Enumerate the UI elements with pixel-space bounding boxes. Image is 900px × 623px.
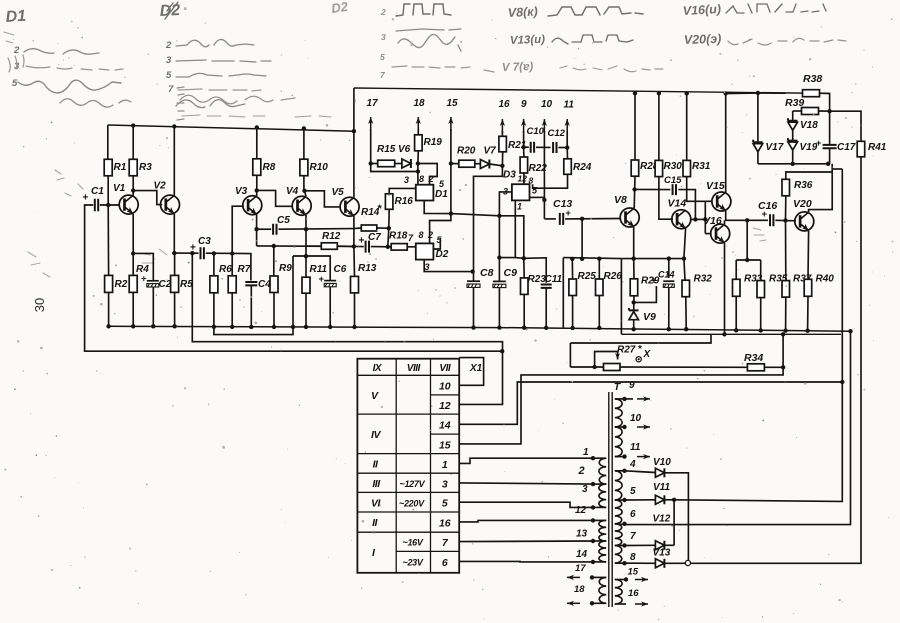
resistor R23 (523, 258, 525, 278)
svg-text:V12: V12 (653, 514, 671, 525)
wire V5 emitter (353, 216, 355, 247)
emitter bus V8 V14 (621, 258, 684, 260)
node C1-R1 (106, 203, 110, 207)
ic block D3 (512, 184, 530, 200)
svg-text:D2: D2 (330, 0, 349, 16)
wire D3 bottom pin to bus (499, 200, 515, 257)
wire V7 node down to C8 (474, 166, 503, 281)
svg-text:R31: R31 (692, 161, 711, 172)
wire V14 emitter to R32 (684, 229, 686, 281)
svg-text:VII: VII (439, 363, 450, 374)
capacitor C5 (257, 228, 272, 230)
node R14 R16 (387, 226, 391, 230)
wire V15 V16 emitters join (726, 211, 748, 221)
svg-text:V20(э): V20(э) (684, 32, 722, 47)
resistor R34 (747, 364, 764, 371)
svg-text:VI: VI (371, 498, 382, 510)
svg-text:5: 5 (380, 52, 385, 62)
svg-text:C12: C12 (548, 128, 566, 139)
transistor V5 (340, 197, 359, 216)
resistor R15 (371, 163, 378, 165)
svg-text:4: 4 (629, 459, 636, 470)
svg-text:C3: C3 (198, 236, 211, 247)
svg-text:10: 10 (630, 413, 642, 424)
resistor R35 (760, 260, 762, 281)
svg-text:8: 8 (529, 176, 534, 186)
scan smudge near C16 (753, 228, 766, 241)
node R9 top (272, 244, 276, 248)
resistor R31 (686, 94, 688, 161)
svg-text:30: 30 (32, 298, 47, 312)
connector table outline (357, 359, 459, 573)
terminal 9 arrow (622, 397, 626, 401)
svg-text:15: 15 (628, 567, 639, 578)
svg-text:R30: R30 (664, 161, 683, 172)
svg-text:14: 14 (439, 420, 451, 432)
svg-text:5: 5 (12, 78, 18, 89)
svg-text:C5: C5 (277, 215, 290, 226)
svg-text:V18: V18 (800, 120, 818, 131)
node emitter output (745, 218, 749, 222)
svg-text:V11: V11 (653, 482, 670, 493)
capacitor C2 electrolytic (133, 253, 153, 281)
wire R29 V9 node to C14 plus (634, 286, 657, 302)
ic block D2 (416, 243, 434, 259)
svg-text:C9: C9 (504, 267, 518, 279)
svg-text:V13: V13 (653, 548, 671, 559)
resistor R1 (107, 125, 109, 159)
lower ground rail right (621, 333, 841, 335)
svg-text:V8(к): V8(к) (507, 4, 538, 20)
svg-text:R10: R10 (310, 162, 329, 173)
svg-text:3: 3 (381, 32, 386, 42)
waveform col3 row2 squiggle (398, 35, 461, 52)
test point X (636, 357, 641, 362)
svg-text:5: 5 (630, 486, 636, 497)
svg-text:V6: V6 (398, 144, 411, 155)
svg-text:17: 17 (367, 98, 379, 109)
diode V6 (395, 163, 402, 165)
svg-text:9: 9 (521, 99, 527, 110)
svg-text:1: 1 (517, 202, 522, 212)
svg-text:17: 17 (575, 563, 586, 574)
resistor R40 (804, 279, 812, 296)
table verticals (395, 359, 397, 573)
svg-text:V2: V2 (154, 181, 167, 192)
bases bracket V15 V16 (704, 201, 706, 233)
svg-text:R18: R18 (389, 231, 408, 242)
potentiometer R27 (604, 364, 621, 371)
vertical C R41 down to V13 row (690, 157, 861, 564)
svg-text:3: 3 (166, 55, 172, 66)
svg-text:R23: R23 (528, 274, 547, 285)
transistor V16 (711, 224, 730, 243)
waveform V13 (552, 35, 633, 44)
hash marks column (177, 87, 184, 120)
svg-text:8: 8 (630, 552, 636, 563)
wire V11 to V12 link (673, 500, 675, 546)
svg-text:R27: R27 (617, 345, 636, 356)
svg-text:+: + (141, 274, 147, 285)
wire V6 node to D1 pin5 (418, 164, 437, 185)
wire R27 to R34 (620, 366, 747, 368)
svg-text:C1: C1 (91, 186, 104, 197)
svg-text:5: 5 (442, 498, 448, 510)
resistor R26 (597, 257, 601, 261)
svg-text:2: 2 (427, 230, 433, 240)
svg-text:R7: R7 (238, 264, 251, 275)
resistor R4 (132, 214, 134, 254)
diode V17 (753, 144, 763, 152)
svg-text:~127V: ~127V (400, 479, 426, 489)
wire V2 emitter to R5 (173, 214, 175, 253)
wire V20 emitter to R40 (807, 231, 810, 279)
resistor R22 (523, 147, 525, 157)
svg-text:C8: C8 (480, 267, 494, 279)
svg-text:16: 16 (628, 588, 639, 599)
svg-text:R12: R12 (322, 231, 341, 242)
node R10 bottom V4 collector (302, 189, 306, 193)
svg-text:R24: R24 (573, 162, 592, 173)
resistor R6 (213, 253, 215, 275)
R33 R35 top bus (736, 259, 761, 261)
svg-text:V16(и): V16(и) (682, 2, 721, 18)
resistor R37 (785, 221, 787, 281)
svg-text:X1: X1 (469, 363, 483, 374)
node R34 right riser (781, 365, 785, 369)
svg-text:2: 2 (578, 465, 585, 477)
svg-text:14: 14 (576, 549, 588, 560)
wire V4 emitter (305, 215, 307, 256)
svg-text:2: 2 (13, 45, 20, 56)
svg-text:15: 15 (447, 98, 459, 109)
svg-text:~220V: ~220V (399, 499, 425, 509)
svg-text:R13: R13 (358, 263, 377, 274)
capacitor C3 (174, 252, 198, 254)
svg-text:V7: V7 (484, 146, 497, 157)
svg-text:12: 12 (575, 505, 587, 516)
wire D3 pin5 to line10 (530, 196, 545, 198)
wire R39 left to V18 (792, 111, 794, 121)
svg-text:18: 18 (414, 98, 426, 109)
node R8 bottom V3 collector (255, 188, 259, 192)
svg-text:D2: D2 (159, 2, 180, 20)
big box top line (354, 88, 830, 93)
stray marks left margin (8, 55, 24, 72)
svg-text:1: 1 (442, 459, 448, 471)
wire D1 bottom to node A (424, 201, 524, 259)
diode V7 (475, 163, 480, 165)
wire pin10 loop (459, 358, 483, 386)
wire to V4 base (257, 190, 293, 206)
potentiometer R27 wire (570, 366, 603, 368)
wire D2 pin3 to C8 node (424, 260, 472, 272)
svg-text:R3: R3 (139, 162, 152, 173)
winding 4-5-6-7-8 (615, 471, 622, 500)
wire feedback drop to pin12 line (192, 253, 502, 404)
svg-text:C17: C17 (837, 142, 856, 153)
node C7 R18 R17 (386, 245, 390, 249)
svg-text:15: 15 (439, 439, 451, 451)
svg-text:10: 10 (439, 381, 451, 393)
svg-text:3: 3 (404, 175, 409, 185)
resistor R28 (634, 93, 636, 160)
ic block D1 (416, 185, 434, 201)
svg-text:11: 11 (630, 442, 641, 453)
transformer T core (608, 392, 610, 607)
svg-text:D3: D3 (503, 170, 516, 181)
R27 wiper loop (595, 352, 618, 368)
capacitor C17 (823, 145, 837, 148)
resistor R41 (830, 111, 861, 141)
D2 pin5 bracket (433, 238, 440, 249)
svg-text:V13(и): V13(и) (510, 34, 546, 47)
svg-text:V14: V14 (668, 198, 687, 210)
node R36 bottom (783, 218, 787, 222)
svg-text:R16: R16 (395, 196, 414, 207)
svg-text:D2: D2 (436, 249, 449, 260)
svg-text:V16: V16 (703, 215, 722, 227)
faint scribble above amp mid (180, 95, 295, 104)
resistor R16 (385, 194, 393, 210)
svg-text:R5: R5 (180, 279, 193, 290)
winding 9-10-11 (615, 399, 622, 427)
resistor R8 (255, 125, 259, 129)
waveform col3 row2 line (396, 29, 461, 31)
resistor R3 (131, 123, 135, 127)
svg-text:V15: V15 (706, 180, 725, 192)
svg-text:R34: R34 (744, 352, 763, 364)
faint scribble above amp left (60, 99, 131, 107)
wire V16 collector down to rail (724, 243, 726, 334)
node R7 top (230, 251, 234, 255)
svg-text:13: 13 (576, 529, 588, 540)
top supply rail (108, 125, 354, 131)
svg-text:V: V (371, 390, 379, 402)
svg-text:*: * (378, 203, 383, 215)
svg-text:6: 6 (442, 557, 448, 569)
node R23 bus (522, 256, 526, 260)
resistor R12 (306, 245, 321, 247)
svg-text:+: + (651, 276, 657, 287)
wire V15 collector to top rail (725, 94, 727, 193)
waveform col3 pulses row1 (396, 4, 451, 16)
transistor V15 (712, 192, 731, 211)
wire C1 to V1 base (100, 204, 120, 206)
diode V9 zener (629, 312, 639, 320)
wire V20 collector up (809, 164, 833, 212)
svg-text:R9: R9 (279, 263, 292, 274)
node C13 V8 base drop (580, 217, 584, 221)
wire V11 output to vertical A (674, 500, 839, 502)
svg-text:R38: R38 (803, 73, 822, 85)
svg-text:R20: R20 (457, 146, 476, 157)
svg-text:V4: V4 (286, 186, 299, 197)
vertical B rail to tap6 (848, 329, 852, 333)
transistor V20 (795, 212, 814, 231)
svg-text:+: + (83, 193, 89, 204)
lower emitter bus V4 (293, 256, 330, 281)
svg-text:*: * (638, 344, 642, 355)
svg-text:VIII: VIII (407, 363, 421, 374)
node R3-V1 collector (131, 188, 135, 192)
waveform V20 (728, 38, 846, 45)
svg-text:V17: V17 (766, 142, 784, 153)
waveform V8 trapezoids (548, 7, 643, 16)
resistor R10 (302, 126, 306, 130)
capacitor C11 (541, 285, 552, 288)
svg-text:D1: D1 (5, 8, 27, 26)
svg-text:R6: R6 (219, 264, 232, 275)
svg-text:11: 11 (564, 100, 575, 111)
transistor V4 (292, 196, 311, 215)
wire C1 left to lower feedback rail (85, 205, 503, 351)
resistor R19 (417, 151, 419, 164)
svg-text:+: + (359, 236, 365, 247)
transistor V8 (620, 208, 639, 227)
svg-text:V10: V10 (653, 457, 671, 468)
svg-text:16: 16 (439, 517, 451, 529)
svg-text:C6: C6 (334, 264, 347, 275)
svg-text:3: 3 (442, 478, 448, 490)
resistor R33 (735, 260, 737, 279)
diode V19 (788, 142, 798, 150)
svg-text:~23V: ~23V (403, 558, 424, 568)
left margin faint marks (28, 252, 50, 277)
wire pin14 bus (459, 382, 842, 424)
table horizontals (357, 374, 459, 376)
svg-text:C10: C10 (527, 126, 545, 137)
diode V18 (788, 122, 798, 130)
svg-text:+: + (816, 138, 821, 148)
svg-text:5: 5 (166, 70, 172, 81)
node R6 top (212, 251, 216, 255)
svg-text:3: 3 (425, 262, 430, 272)
svg-text:R15: R15 (377, 144, 396, 155)
resistor R5 (174, 253, 176, 275)
svg-text:V3: V3 (235, 186, 248, 197)
svg-text:V1: V1 (113, 183, 126, 194)
wire V14 collector to bases bracket (691, 218, 706, 220)
capacitor C4 (245, 282, 257, 285)
svg-text:12: 12 (439, 400, 451, 412)
winding 12-13-14 left (599, 520, 606, 541)
resistor R9 (273, 246, 275, 276)
waveform D2 row 8 (176, 100, 245, 108)
svg-text:+: + (566, 208, 571, 218)
resistor R29 (633, 227, 635, 259)
wire V2 collector (172, 124, 176, 128)
svg-text:IV: IV (371, 429, 381, 441)
svg-text:V5: V5 (332, 187, 345, 198)
faint dashes above amp (182, 115, 331, 117)
resistor R25 (570, 257, 574, 261)
scan noise (291, 95, 292, 96)
svg-text:7: 7 (630, 531, 636, 542)
svg-text:10: 10 (541, 99, 553, 110)
svg-text:R32: R32 (694, 274, 713, 285)
svg-text:V 7(ɐ): V 7(ɐ) (502, 61, 534, 74)
wire pin15 bus (459, 367, 783, 444)
wire D1 pin3 to R16 (389, 188, 416, 193)
resistor R30 (658, 93, 660, 160)
rail V17 V19 C17 (758, 163, 828, 165)
svg-text:D1: D1 (435, 189, 448, 200)
resistor R11 (305, 256, 307, 277)
winding 1-2-3 left (599, 458, 606, 484)
resistor R13 (353, 246, 356, 276)
svg-text:2: 2 (428, 174, 434, 184)
waveform V16 pulses (726, 4, 826, 13)
capacitor C1 (95, 199, 98, 211)
bottom ground rail (108, 326, 851, 331)
transistor V14 (672, 210, 691, 229)
transistor V2 (161, 195, 180, 214)
wire V1 collector to V2 base (133, 191, 162, 205)
svg-text:+: + (319, 274, 325, 285)
waveform col3 row3 dots (392, 66, 494, 72)
svg-text:9: 9 (629, 380, 635, 391)
svg-text:V19: V19 (800, 142, 818, 153)
node V7 cathode (500, 164, 504, 168)
scan speckles (239, 299, 241, 301)
resistor R36 (785, 196, 787, 221)
svg-text:C2: C2 (159, 279, 172, 290)
svg-text:R41: R41 (868, 142, 887, 153)
node feedback tap (190, 251, 194, 255)
resistor R21 (499, 136, 507, 152)
svg-text:X: X (643, 349, 652, 360)
resistor R2 (107, 205, 109, 275)
svg-text:R40: R40 (816, 274, 835, 285)
svg-text:C11: C11 (545, 274, 563, 285)
svg-text:R22: R22 (529, 163, 548, 174)
svg-text:+: + (762, 209, 768, 220)
resistor R7 (231, 254, 233, 276)
ground stub rail under R6 R7 (214, 327, 293, 335)
svg-text:8: 8 (419, 174, 424, 184)
transistor V3 (243, 196, 262, 215)
svg-text:3: 3 (582, 484, 588, 495)
resistor R20 (451, 163, 459, 165)
wire V3 emitter chain (256, 215, 258, 246)
svg-text:R19: R19 (424, 137, 443, 148)
waveform V17 squiggle dashes (560, 66, 663, 72)
transistor V1 (119, 195, 138, 214)
svg-text:6: 6 (630, 509, 636, 520)
svg-text:2: 2 (165, 40, 172, 51)
svg-text:V20: V20 (793, 198, 812, 210)
svg-text:2: 2 (380, 7, 386, 17)
svg-text:~16V: ~16V (403, 538, 424, 548)
svg-text:1: 1 (583, 447, 589, 458)
wire D3 pin3 to C9 column (499, 192, 512, 281)
emitter bus left segment (563, 258, 621, 259)
svg-text:16: 16 (499, 99, 511, 110)
svg-text:R25: R25 (578, 271, 597, 282)
wire bus343 (570, 334, 711, 343)
svg-text:7: 7 (168, 84, 174, 95)
wire lower feedback to pin12 junction (500, 349, 504, 353)
open terminal node V13 V10 (685, 560, 690, 565)
vertical A from V20 node down to V11 row (840, 169, 843, 501)
wire top rail R38 junction (726, 92, 786, 95)
svg-text:C14: C14 (658, 270, 675, 280)
svg-text:R26: R26 (604, 271, 623, 282)
resistor R32 (682, 280, 690, 297)
node R28 V8 collector C15wire (632, 187, 636, 191)
wire to V5 base (305, 191, 341, 207)
